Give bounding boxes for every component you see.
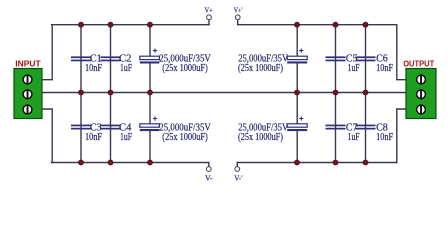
svg-text:INPUT: INPUT	[15, 58, 41, 68]
capacitor electrolytic 25,000uF/35V bottom-left	[140, 116, 160, 131]
junction dots bottom rail	[79, 160, 368, 165]
wire: right top rail V+' net	[238, 24, 397, 26]
wire: output pin1 to top rail	[397, 25, 406, 80]
capacitor C3 10nF	[71, 125, 91, 130]
capacitor C1 10nF	[71, 56, 91, 61]
wire: C3 column bottom lead	[80, 93, 82, 163]
svg-text:10nF: 10nF	[85, 132, 102, 143]
terminal V-	[205, 167, 213, 183]
svg-text:10nF: 10nF	[376, 132, 393, 143]
terminal V-'	[234, 167, 243, 183]
wire: V- terminal rise	[208, 163, 210, 167]
svg-text:V-: V-	[205, 174, 213, 183]
svg-text:(25x 1000uF): (25x 1000uF)	[162, 63, 208, 74]
wire: C2 column top lead	[110, 25, 112, 93]
capacitor C4 1uF	[101, 125, 121, 130]
wire: right bottom rail V-' net	[237, 162, 396, 164]
junction dots top rail	[79, 22, 368, 27]
terminal V+	[205, 6, 214, 20]
wire: V-' terminal rise	[236, 163, 238, 167]
wire: C4 column bottom lead	[110, 93, 112, 163]
connector J2 OUTPUT terminal block	[406, 69, 436, 119]
screw pin 1 of INPUT	[22, 74, 32, 84]
capacitor C2 1uF	[101, 56, 121, 61]
wire: middle common rail	[43, 92, 406, 94]
capacitor electrolytic 25,000uF/35V top-left	[140, 49, 160, 64]
svg-text:1uF: 1uF	[348, 132, 360, 143]
svg-text:1uF: 1uF	[348, 63, 360, 74]
svg-text:V-′: V-′	[234, 174, 243, 183]
wire: C11 electrolytic top-right leads	[296, 25, 298, 93]
svg-text:V+: V+	[205, 6, 214, 15]
wire: input pin1 to top rail	[43, 25, 53, 80]
wire: C7 column bottom lead	[335, 93, 337, 163]
capacitor C7 1uF	[326, 125, 346, 130]
wire: left bottom rail V- net	[52, 162, 209, 164]
wire: C8 column bottom lead	[365, 93, 367, 163]
junction dots middle rail	[79, 90, 368, 95]
capacitor C8 10nF	[356, 125, 376, 130]
wire: V+' terminal drop	[237, 20, 239, 25]
screw pin 2 of OUTPUT	[416, 89, 426, 99]
svg-text:V+′: V+′	[234, 6, 243, 15]
wire: C1 column top lead	[80, 25, 82, 93]
wire: V+ terminal drop	[208, 20, 210, 25]
screw pin 2 of INPUT	[22, 89, 32, 99]
screw pin 1 of OUTPUT	[416, 74, 426, 84]
wire: C10 electrolytic bottom-left leads	[149, 93, 151, 163]
wire: C6 column top lead	[365, 25, 367, 93]
wire: input pin3 to bottom rail	[43, 109, 53, 163]
connector J1 INPUT terminal block	[14, 69, 42, 119]
wire: C12 electrolytic bottom-right leads	[296, 93, 298, 163]
svg-text:(25x 1000uF): (25x 1000uF)	[238, 132, 283, 143]
capacitor electrolytic 25,000uF/35V top-right	[287, 49, 307, 64]
screw pin 3 of OUTPUT	[416, 104, 426, 114]
svg-text:10nF: 10nF	[376, 63, 393, 74]
wire: left top rail V+ net	[52, 24, 210, 26]
svg-text:1uF: 1uF	[120, 63, 132, 74]
capacitor C6 10nF	[356, 56, 376, 61]
wire: output pin3 to bottom rail	[397, 109, 406, 163]
svg-text:1uF: 1uF	[120, 132, 132, 143]
svg-text:10nF: 10nF	[85, 63, 102, 74]
svg-text:OUTPUT: OUTPUT	[403, 58, 435, 68]
screw pin 3 of INPUT	[22, 104, 32, 114]
wire: C5 column top lead	[335, 25, 337, 93]
svg-text:(25x 1000uF): (25x 1000uF)	[238, 63, 283, 74]
svg-text:(25x 1000uF): (25x 1000uF)	[162, 132, 208, 143]
wire: C9 electrolytic top-left leads	[149, 25, 151, 93]
capacitor C5 1uF	[326, 56, 346, 61]
capacitor electrolytic 25,000uF/35V bottom-right	[287, 116, 307, 131]
terminal V+'	[234, 6, 243, 20]
